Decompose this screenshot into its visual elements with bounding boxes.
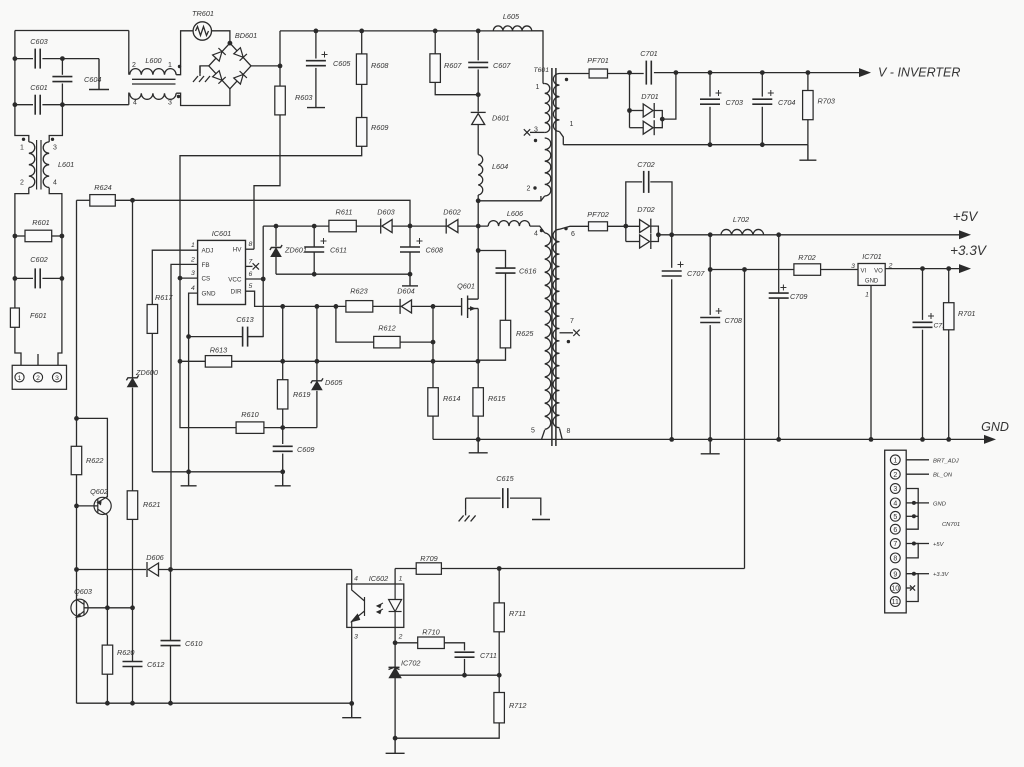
wire R619 bottom: [282, 409, 284, 428]
resistor R712: [494, 693, 505, 723]
svg-text:C709: C709: [790, 292, 807, 301]
wire C703 top: [709, 73, 711, 97]
svg-text:4: 4: [893, 501, 897, 508]
IC602 LED: [389, 584, 402, 627]
svg-text:1: 1: [20, 145, 24, 152]
junction: [708, 232, 713, 237]
wire R610 right: [264, 427, 317, 429]
wire IC601 pin2 FB column: [171, 264, 198, 569]
wire D702 cathode join: [651, 226, 659, 241]
CN701 pin 5: [890, 511, 900, 521]
svg-text:C608: C608: [426, 246, 444, 255]
phase dot: [564, 227, 567, 230]
wire C604 top: [61, 59, 63, 75]
svg-text:L606: L606: [507, 209, 524, 218]
wire CN701 gnd tap: [914, 502, 929, 504]
wire C712 top: [922, 269, 924, 320]
junction: [760, 70, 765, 75]
junction: [912, 542, 916, 546]
diode D701 lower: [643, 120, 654, 135]
resistor R623: [346, 301, 373, 313]
svg-text:D605: D605: [325, 378, 343, 387]
junction: [431, 340, 436, 345]
wire to C610: [170, 570, 172, 641]
junction: [920, 437, 925, 442]
junction: [186, 469, 191, 474]
svg-text:L702: L702: [733, 215, 749, 224]
wire sec1 bottom exit: [560, 132, 564, 145]
resistor R620: [102, 645, 113, 674]
capacitor C611: [304, 247, 324, 252]
inductor L606: [488, 221, 530, 227]
svg-text:D606: D606: [146, 553, 164, 562]
wire R609 to CS column: [180, 146, 362, 200]
svg-text:C605: C605: [333, 59, 351, 68]
ground IC601: [181, 472, 197, 486]
zener diode ZD601: [270, 245, 282, 256]
wire left rail mid: [14, 59, 16, 105]
wire C702 right: [650, 182, 672, 235]
wire TR601 to bridge top: [212, 31, 230, 43]
svg-text:4: 4: [191, 285, 195, 292]
wire ZD600 column upper: [132, 200, 134, 377]
svg-text:FB: FB: [202, 262, 210, 269]
wire R703 top: [807, 73, 809, 91]
junction: [130, 198, 135, 203]
transistor Q602: [94, 497, 111, 516]
junction: [431, 304, 436, 309]
svg-text:R619: R619: [293, 390, 310, 399]
junction: [312, 224, 317, 229]
regulator IC701: [858, 264, 885, 286]
diode D701 upper: [643, 103, 654, 118]
svg-text:VCC: VCC: [228, 276, 242, 283]
svg-text:R612: R612: [378, 324, 395, 333]
svg-text:C708: C708: [725, 316, 743, 325]
capacitor C709: [769, 293, 789, 298]
capacitor C712: [913, 322, 933, 327]
wire D701 anode column: [629, 73, 631, 128]
zener diode D605: [311, 378, 323, 389]
junction: [74, 416, 79, 421]
wire main HV top rail: [280, 30, 543, 32]
wire CN701 pin10 stub: [906, 587, 911, 589]
junction: [674, 70, 679, 75]
ground IC702: [386, 738, 405, 753]
junction: [497, 566, 502, 571]
junction: [476, 198, 481, 203]
IC602 phototransistor: [352, 584, 365, 627]
resistor R702: [794, 264, 821, 276]
wire R612 column to R614: [432, 306, 434, 387]
thermistor TR601: [193, 22, 211, 40]
optocoupler IC602: [347, 584, 404, 627]
svg-text:Q601: Q601: [457, 282, 475, 291]
wire L600 pin4 down: [128, 93, 131, 105]
wire C603 right to ground branch: [42, 58, 99, 60]
junction: [13, 102, 18, 107]
wire pin1 entry: [543, 83, 545, 85]
wire CS column down to R610: [180, 200, 236, 427]
ground C609: [275, 472, 291, 486]
svg-text:BL_ON: BL_ON: [933, 473, 953, 479]
wire to L600 pin2: [128, 31, 130, 75]
wire connector pin2 stub: [37, 354, 39, 365]
wire primary small rail: [152, 471, 282, 473]
wire R608-R609: [361, 84, 363, 117]
wire left column to R622: [76, 200, 78, 446]
svg-text:GND: GND: [981, 420, 1009, 434]
wire R712 bottom row: [395, 723, 499, 738]
junction: [186, 334, 191, 339]
junction: [280, 359, 285, 364]
L601 core: [37, 140, 41, 190]
ground secondary: [701, 439, 720, 453]
junction: [476, 437, 481, 442]
svg-text:IC602: IC602: [369, 574, 388, 583]
wire C613 left: [189, 336, 243, 338]
shunt regulator IC702: [389, 667, 401, 677]
svg-text:4: 4: [354, 576, 358, 583]
resistor R625: [500, 320, 511, 348]
junction: [776, 232, 781, 237]
junction: [105, 701, 110, 706]
svg-text:VO: VO: [874, 269, 883, 275]
svg-text:C704: C704: [778, 98, 795, 107]
svg-text:L600: L600: [145, 56, 161, 65]
svg-text:F601: F601: [30, 311, 47, 320]
wire R624 left: [77, 199, 90, 201]
T601 secondary winding 6-7-8: [553, 229, 560, 427]
svg-text:1: 1: [399, 576, 403, 583]
ground C604 branch: [89, 59, 109, 90]
bridge diode bottom-right: [234, 71, 247, 84]
svg-text:VI: VI: [861, 269, 867, 275]
wire left column lower: [76, 475, 78, 704]
CN701 pin 3: [890, 484, 900, 494]
wire D701 lower anode: [630, 127, 644, 129]
wire D606 row left: [77, 569, 147, 571]
capacitor C601: [35, 95, 40, 115]
diode D604: [400, 299, 411, 314]
wire R621 to Q603 base row: [132, 519, 134, 607]
wire PF701 to C701: [608, 73, 644, 75]
svg-text:R617: R617: [155, 293, 173, 302]
capacitor C603: [35, 49, 40, 69]
wire IC601 pin5 DIR to gate row: [246, 291, 462, 306]
wire C708 bottom: [709, 325, 711, 439]
fuse resistor PF702: [589, 222, 608, 231]
junction: [359, 29, 364, 34]
wire C613 right: [247, 336, 263, 338]
svg-text:R610: R610: [241, 410, 258, 419]
wire C607 top: [477, 31, 479, 61]
wire +5V rail: [658, 234, 969, 236]
resistor R603: [275, 86, 286, 115]
svg-text:R709: R709: [420, 554, 437, 563]
wire IC602 pin2 down: [394, 627, 396, 667]
wire R701 top: [948, 269, 950, 303]
wire ZD600 to R621: [132, 388, 134, 491]
wire L606 to T601 pin4: [530, 226, 545, 233]
CN701 pin 10: [890, 583, 900, 593]
svg-text:GND: GND: [865, 279, 879, 285]
T601 primary winding 3-2: [545, 138, 551, 196]
svg-text:HV: HV: [233, 247, 243, 254]
arrow +5V: [959, 230, 971, 239]
junction: [274, 224, 279, 229]
wire D602 to L606: [458, 225, 488, 227]
junction: [806, 70, 811, 75]
earth ground C615: [459, 509, 476, 521]
arrow +3.3V: [959, 264, 971, 273]
wire IC701 GND pin: [870, 285, 872, 439]
svg-text:R613: R613: [210, 346, 227, 355]
svg-text:3: 3: [191, 270, 195, 277]
wire L604 to drain node: [477, 195, 479, 226]
svg-text:7: 7: [893, 541, 897, 548]
wire C603 left: [15, 58, 33, 60]
wire R624 row to D602 node: [115, 200, 410, 226]
resistor R621: [127, 491, 138, 520]
junction: [280, 304, 285, 309]
svg-text:6: 6: [893, 527, 897, 534]
wire IC601 pin4 GND down: [189, 293, 198, 337]
svg-text:ADJ: ADJ: [202, 248, 214, 255]
capacitor C610: [161, 641, 181, 646]
junction: [393, 736, 398, 741]
junction: [912, 501, 916, 505]
wire R709 node to R711: [498, 569, 500, 603]
wire to connector pin3: [58, 278, 62, 365]
capacitor C615: [503, 488, 508, 508]
CN701 pin 11: [890, 597, 900, 607]
junction: [60, 276, 65, 281]
svg-text:L604: L604: [492, 162, 508, 171]
junction: [656, 232, 661, 237]
wire D605 top column: [316, 306, 318, 380]
wire R613 left: [180, 360, 205, 362]
svg-text:Q602: Q602: [90, 487, 108, 496]
svg-text:C707: C707: [687, 269, 705, 278]
svg-text:C703: C703: [726, 98, 743, 107]
wire CN701 pin4: [906, 502, 918, 504]
svg-text:4: 4: [53, 180, 57, 187]
svg-text:D701: D701: [641, 92, 658, 101]
wire C712 bottom: [922, 330, 924, 440]
wire R701 bottom: [948, 330, 950, 440]
wire C615 left drop: [465, 498, 467, 509]
wire R703 bottom: [807, 120, 809, 145]
svg-text:R624: R624: [94, 183, 111, 192]
capacitor C613: [243, 327, 248, 347]
transformer T601 core: [552, 68, 556, 446]
inductor L702: [721, 229, 764, 234]
wire C601 right rail: [42, 104, 128, 106]
wire REF row: [397, 674, 499, 676]
capacitor C704: [752, 99, 772, 104]
wire IC601 pin3 CS: [180, 277, 198, 279]
wire to Q602 collector: [77, 418, 108, 497]
junction: [912, 514, 916, 518]
svg-text:R603: R603: [295, 93, 312, 102]
junction: [431, 359, 436, 364]
wire to IC602 pin4: [351, 570, 353, 585]
wire C616 to R625: [505, 273, 507, 320]
wire snubber bottom: [478, 348, 505, 360]
svg-text:BD601: BD601: [235, 31, 257, 40]
junction: [314, 29, 319, 34]
wire bridge output: [251, 65, 280, 67]
resistor R624: [90, 195, 116, 207]
junction: [408, 224, 413, 229]
junction: [433, 29, 438, 34]
junction: [280, 425, 285, 430]
wire pin2 to R710: [395, 642, 418, 644]
arrow GND: [984, 435, 996, 444]
svg-text:R608: R608: [371, 61, 389, 70]
wire D702 lower anode: [626, 241, 641, 243]
wire C704 bottom: [761, 107, 763, 145]
wire R611 to D603: [356, 225, 380, 227]
phase dot: [22, 138, 25, 141]
wire D701 output: [662, 73, 676, 120]
junction: [60, 102, 65, 107]
wire F601 to connector pin1: [15, 327, 21, 365]
junction: [334, 304, 339, 309]
svg-text:4: 4: [534, 231, 538, 238]
svg-text:CN701: CN701: [942, 522, 960, 528]
wire IC601 pin6 VCC: [246, 278, 264, 280]
connector CN701: [885, 450, 907, 613]
svg-text:CS: CS: [202, 276, 211, 283]
diode D603: [381, 219, 392, 234]
junction: [315, 359, 320, 364]
wire L600 pin3 to bridge bottom: [176, 89, 230, 106]
arrow V-INVERTER: [859, 68, 871, 77]
svg-text:C611: C611: [330, 246, 347, 255]
wire IC601 pin1 to R617: [152, 250, 197, 304]
svg-text:R711: R711: [509, 609, 526, 618]
junction: [280, 469, 285, 474]
svg-text:D603: D603: [377, 208, 394, 217]
capacitor C616: [496, 268, 516, 273]
capacitor C609: [273, 446, 293, 451]
junction: [476, 29, 481, 34]
junction: [708, 142, 713, 147]
junction: [178, 276, 183, 281]
svg-text:GND: GND: [933, 501, 946, 507]
controller IC IC601: [198, 240, 246, 304]
wire Q602 base: [77, 505, 98, 507]
svg-text:C601: C601: [30, 83, 47, 92]
svg-text:2: 2: [893, 472, 897, 479]
T601 primary winding 1-3: [545, 84, 550, 133]
svg-text:1: 1: [570, 121, 574, 128]
wire IC601 pin7 stub: [246, 265, 253, 267]
fuse resistor PF701: [589, 69, 607, 78]
svg-text:5: 5: [893, 514, 897, 521]
junction: [228, 41, 233, 46]
bridge diode bottom-left: [213, 71, 226, 84]
svg-text:3: 3: [168, 100, 172, 107]
wire to R615: [477, 361, 479, 387]
connector pin 2: [33, 373, 42, 382]
svg-text:1: 1: [893, 457, 897, 464]
wire C611 top: [313, 226, 315, 247]
capacitor C707: [662, 271, 682, 276]
capacitor C711: [455, 652, 475, 657]
junction: [261, 277, 266, 282]
wire clamp bottom row: [276, 273, 410, 275]
junction: [708, 437, 713, 442]
wire C615 left: [466, 497, 501, 499]
svg-text:R614: R614: [443, 394, 460, 403]
svg-text:7: 7: [249, 258, 253, 265]
svg-text:T601: T601: [534, 67, 550, 74]
svg-text:V - INVERTER: V - INVERTER: [878, 66, 960, 80]
wire CN701 +5V tap: [914, 543, 929, 545]
bridge diode top-right: [234, 48, 247, 61]
junction: [912, 572, 916, 576]
MOSFET Q601: [462, 296, 479, 319]
wire to R712: [498, 675, 500, 692]
svg-text:10: 10: [891, 586, 899, 593]
svg-text:3: 3: [893, 486, 897, 493]
svg-text:IC702: IC702: [401, 659, 420, 668]
wire to R620: [106, 608, 108, 645]
svg-text:8: 8: [567, 428, 571, 435]
wire R617 to gnd rail: [151, 333, 153, 471]
resistor R610: [236, 422, 264, 434]
svg-text:R710: R710: [422, 628, 439, 637]
junction: [278, 64, 283, 69]
phase dot: [565, 78, 568, 81]
svg-text:1: 1: [191, 242, 195, 249]
wire R620 to rail: [106, 674, 108, 703]
IC602 light arrows: [377, 603, 383, 614]
resistor R609: [356, 118, 367, 147]
wire feedback column: [744, 270, 746, 569]
wire +3.3V rail: [885, 268, 969, 270]
svg-text:R615: R615: [488, 394, 506, 403]
resistor R619: [277, 380, 288, 409]
svg-text:GND: GND: [202, 291, 216, 298]
svg-text:1: 1: [536, 84, 540, 91]
junction: [476, 359, 481, 364]
wire CN701 pins9-11 bracket: [906, 574, 918, 602]
wire R709 row: [441, 568, 744, 570]
wire R603 top: [279, 31, 281, 86]
svg-text:R607: R607: [444, 61, 462, 70]
wire R607 top: [434, 31, 436, 54]
junction: [74, 504, 79, 509]
resistor R615: [473, 388, 484, 416]
svg-text:3: 3: [55, 375, 59, 382]
wire D605 bottom: [316, 391, 318, 428]
inductor L604: [478, 155, 483, 195]
ground C605: [307, 107, 325, 109]
junction: [408, 272, 413, 277]
wire CN701 +3.3V tap: [914, 573, 929, 575]
CN701 pin 4: [890, 498, 900, 508]
wire C711 bottom: [464, 659, 466, 675]
capacitor C607: [468, 62, 488, 67]
inductor L605: [493, 26, 531, 31]
no-connect tap3: [524, 129, 530, 135]
CN701 pin 6: [890, 524, 900, 534]
resistor R608: [356, 54, 367, 85]
